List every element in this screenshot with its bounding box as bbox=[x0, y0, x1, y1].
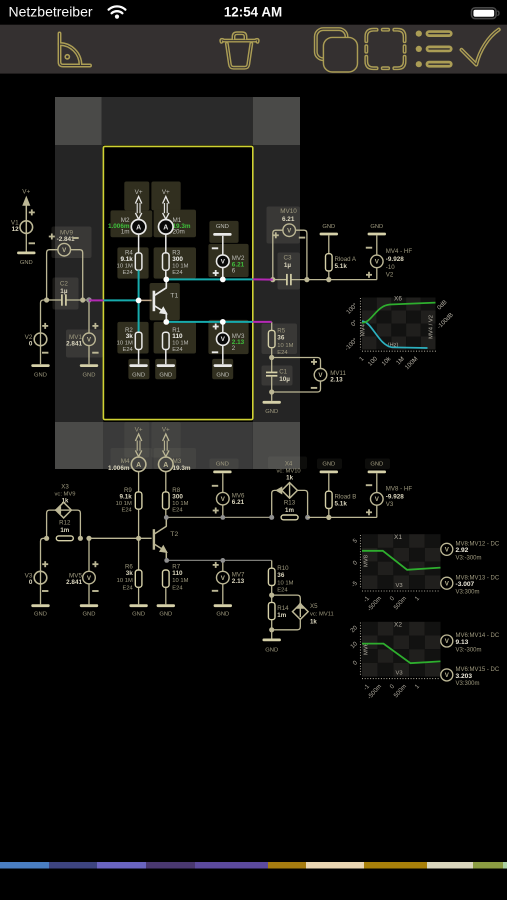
svg-text:GND: GND bbox=[216, 612, 229, 618]
svg-text:1µ: 1µ bbox=[284, 262, 292, 269]
svg-text:A: A bbox=[163, 462, 168, 469]
svg-text:X4: X4 bbox=[285, 460, 293, 467]
svg-text:E24: E24 bbox=[172, 347, 183, 353]
svg-text:1m: 1m bbox=[60, 527, 69, 534]
svg-text:20m: 20m bbox=[173, 229, 185, 236]
svg-text:V+: V+ bbox=[135, 427, 143, 434]
svg-text:V+: V+ bbox=[162, 427, 170, 434]
svg-text:12:54 AM: 12:54 AM bbox=[224, 4, 282, 19]
svg-text:X2: X2 bbox=[394, 621, 402, 628]
svg-text:E24: E24 bbox=[172, 270, 183, 276]
svg-text:vc: MV11: vc: MV11 bbox=[310, 612, 334, 618]
svg-text:10 1M: 10 1M bbox=[172, 578, 188, 584]
svg-text:C3: C3 bbox=[283, 255, 292, 262]
svg-text:9.1k: 9.1k bbox=[119, 494, 132, 501]
svg-text:GND: GND bbox=[132, 373, 145, 379]
svg-text:R5: R5 bbox=[277, 328, 285, 335]
svg-text:GND: GND bbox=[322, 224, 335, 230]
svg-text:V3:300m: V3:300m bbox=[456, 590, 480, 596]
svg-text:V3: V3 bbox=[395, 670, 402, 676]
svg-text:110: 110 bbox=[172, 333, 183, 340]
svg-text:MV8 - HF: MV8 - HF bbox=[386, 485, 413, 492]
svg-text:V3:-300m: V3:-300m bbox=[456, 556, 482, 562]
svg-text:GND: GND bbox=[370, 224, 383, 230]
svg-text:GND: GND bbox=[34, 373, 47, 379]
svg-text:36: 36 bbox=[277, 335, 285, 342]
svg-text:-10: -10 bbox=[386, 264, 395, 271]
svg-text:GND: GND bbox=[216, 373, 229, 379]
svg-text:V3: V3 bbox=[386, 501, 394, 508]
svg-text:300: 300 bbox=[172, 494, 183, 501]
svg-text:10 1M: 10 1M bbox=[172, 340, 188, 346]
svg-text:2.13: 2.13 bbox=[330, 376, 343, 383]
svg-text:V3:-300m: V3:-300m bbox=[456, 647, 482, 653]
svg-text:10µ: 10µ bbox=[279, 376, 290, 383]
svg-text:GND: GND bbox=[132, 612, 145, 618]
svg-text:A: A bbox=[136, 224, 141, 231]
svg-text:vc: MV10: vc: MV10 bbox=[277, 468, 301, 474]
svg-text:E24: E24 bbox=[122, 586, 133, 592]
svg-text:2.13: 2.13 bbox=[232, 578, 245, 585]
svg-text:-9.928: -9.928 bbox=[386, 256, 404, 263]
svg-text:0: 0 bbox=[29, 579, 33, 586]
svg-text:2.92: 2.92 bbox=[456, 547, 469, 554]
svg-text:GND: GND bbox=[216, 224, 229, 230]
svg-text:10 1M: 10 1M bbox=[172, 501, 188, 507]
svg-text:1.006m: 1.006m bbox=[108, 465, 130, 472]
svg-text:0: 0 bbox=[29, 341, 33, 348]
svg-text:110: 110 bbox=[172, 570, 183, 577]
svg-text:GND: GND bbox=[20, 260, 33, 266]
svg-text:E24: E24 bbox=[277, 350, 288, 356]
svg-text:GND: GND bbox=[34, 612, 47, 618]
svg-text:10 1M: 10 1M bbox=[117, 264, 133, 270]
svg-text:6.21: 6.21 bbox=[282, 216, 295, 223]
svg-text:X5: X5 bbox=[310, 603, 318, 610]
svg-text:-3.007: -3.007 bbox=[456, 581, 475, 588]
svg-text:36: 36 bbox=[277, 572, 285, 579]
svg-text:3.203: 3.203 bbox=[456, 673, 473, 680]
svg-text:5.1k: 5.1k bbox=[335, 263, 348, 270]
svg-text:5.1k: 5.1k bbox=[335, 500, 348, 507]
svg-text:300: 300 bbox=[172, 256, 183, 263]
svg-text:2.841: 2.841 bbox=[66, 579, 82, 586]
svg-text:T1: T1 bbox=[170, 292, 178, 299]
svg-text:MV4 - HF: MV4 - HF bbox=[386, 248, 413, 255]
svg-text:GND: GND bbox=[159, 612, 172, 618]
svg-text:10 1M: 10 1M bbox=[277, 343, 293, 349]
svg-text:MV8: MV8 bbox=[364, 555, 370, 567]
svg-text:E24: E24 bbox=[277, 588, 288, 594]
svg-text:X1: X1 bbox=[394, 534, 402, 541]
svg-text:V3: V3 bbox=[395, 583, 402, 589]
svg-text:E24: E24 bbox=[172, 508, 183, 514]
svg-text:V3:300m: V3:300m bbox=[456, 681, 480, 687]
svg-text:10 1M: 10 1M bbox=[117, 578, 133, 584]
svg-text:12: 12 bbox=[12, 226, 20, 233]
svg-text:X6: X6 bbox=[394, 296, 402, 303]
svg-text:10 1M: 10 1M bbox=[116, 501, 132, 507]
svg-text:V2: V2 bbox=[386, 271, 394, 278]
svg-text:6.21: 6.21 bbox=[232, 499, 245, 506]
svg-text:GND: GND bbox=[159, 373, 172, 379]
svg-text:C1: C1 bbox=[279, 369, 287, 376]
svg-text:E24: E24 bbox=[121, 508, 132, 514]
svg-text:T2: T2 bbox=[170, 531, 178, 538]
svg-text:1m: 1m bbox=[277, 612, 286, 619]
svg-text:9.1k: 9.1k bbox=[120, 256, 133, 263]
svg-text:GND: GND bbox=[322, 462, 335, 468]
svg-text:MV6: MV6 bbox=[364, 643, 370, 655]
svg-text:1µ: 1µ bbox=[60, 288, 68, 295]
svg-text:10 1M: 10 1M bbox=[172, 264, 188, 270]
svg-text:R14: R14 bbox=[277, 605, 289, 612]
svg-text:GND: GND bbox=[83, 373, 96, 379]
svg-text:A: A bbox=[136, 462, 141, 469]
svg-text:10 1M: 10 1M bbox=[117, 340, 133, 346]
svg-text:R12: R12 bbox=[59, 520, 71, 527]
svg-text:-2.841: -2.841 bbox=[57, 236, 75, 243]
svg-text:GND: GND bbox=[83, 612, 96, 618]
svg-text:3k: 3k bbox=[126, 570, 134, 577]
svg-text:10 1M: 10 1M bbox=[277, 580, 293, 586]
svg-text:R13: R13 bbox=[284, 500, 296, 507]
svg-text:A: A bbox=[163, 224, 168, 231]
svg-text:Netzbetreiber: Netzbetreiber bbox=[9, 4, 93, 20]
svg-text:3k: 3k bbox=[126, 333, 134, 340]
svg-text:9.13: 9.13 bbox=[456, 639, 469, 646]
svg-text:C2: C2 bbox=[60, 281, 69, 288]
svg-text:V+: V+ bbox=[162, 189, 170, 196]
svg-text:V+: V+ bbox=[135, 189, 143, 196]
svg-text:GND: GND bbox=[265, 409, 278, 415]
svg-text:1m: 1m bbox=[285, 507, 294, 514]
svg-text:GND: GND bbox=[265, 647, 278, 653]
svg-text:2.841: 2.841 bbox=[66, 341, 82, 348]
svg-text:E24: E24 bbox=[172, 586, 183, 592]
svg-text:MV4°: MV4° bbox=[361, 322, 367, 336]
svg-text:MV10: MV10 bbox=[280, 208, 297, 215]
svg-text:-9.928: -9.928 bbox=[386, 494, 404, 501]
svg-text:MV4 / V2: MV4 / V2 bbox=[429, 315, 435, 339]
svg-text:6: 6 bbox=[232, 267, 236, 274]
svg-text:E24: E24 bbox=[122, 270, 133, 276]
svg-text:19.3m: 19.3m bbox=[173, 465, 191, 472]
svg-text:1k: 1k bbox=[310, 618, 317, 625]
svg-text:GND: GND bbox=[370, 462, 383, 468]
svg-text:R10: R10 bbox=[277, 565, 289, 572]
svg-text:1m: 1m bbox=[121, 229, 130, 236]
svg-text:2: 2 bbox=[232, 345, 236, 352]
svg-text:1k: 1k bbox=[286, 475, 293, 482]
svg-text:GND: GND bbox=[216, 462, 229, 468]
svg-text:E24: E24 bbox=[122, 347, 133, 353]
svg-text:X3: X3 bbox=[61, 483, 69, 490]
svg-text:V+: V+ bbox=[22, 189, 30, 196]
